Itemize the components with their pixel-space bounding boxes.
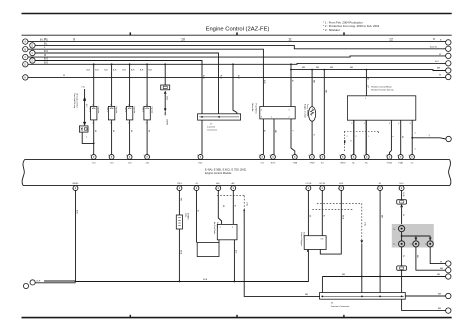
junction w7a E2 [323,69,325,71]
svg-text:Injector: Injector [97,107,100,114]
svg-text:W: W [402,214,404,216]
BR ground bus wire [322,276,445,278]
injector No.4 coil mark [145,107,148,110]
svg-text:VG: VG [261,163,264,165]
junction E1/BR bus [379,276,381,278]
svg-text:W: W [439,75,442,77]
ECM bottom edge [23,184,450,186]
ECM top pin M- [351,155,356,160]
svg-text:BR: BR [437,274,440,276]
svg-text:BR: BR [302,67,305,69]
svg-text:E2: E2 [321,163,324,165]
svg-text:12: 12 [389,37,393,41]
ECT lower wire THW [311,121,313,154]
injector No.4 box [144,106,150,120]
upper J/C dot 2 [218,116,220,118]
throttle shield drain mark [344,140,346,143]
connector circle R4 [446,61,451,66]
svg-text:R-Y: R-Y [85,104,87,108]
svg-text:(*3): (*3) [246,202,248,206]
svg-text:4: 4 [398,123,399,125]
grid tick b [236,32,238,35]
connector circle R9 [446,268,451,273]
throttle wire M- [353,120,355,154]
ECM bottom pin AF- [231,186,236,191]
wire gray c4 to right circle [430,247,445,264]
throttle wire VTA1 [400,120,402,154]
svg-text:2: 2 [339,155,340,157]
ECM bottom pin MREL [73,186,78,191]
svg-text:W: W [130,130,132,133]
O2 shield dash top [317,202,362,204]
grid rule [22,34,452,36]
svg-text:VC: VC [410,163,413,165]
svg-text:B-L(*2): B-L(*2) [430,47,437,49]
svg-text:No.2: No.2 [106,108,108,113]
bottom tick a [129,315,131,318]
upper J/C lower wire to ECM pin [201,120,203,154]
svg-text:W: W [402,255,404,257]
svg-text:Throttle Control Motor: Throttle Control Motor [371,86,393,89]
svg-text:2: 2 [144,155,145,157]
engine coolant temp sensor oval [309,107,316,122]
connector circle R3 [446,53,451,58]
wire w2 (B-L, to right circle c2) [35,45,446,48]
svg-text:B-R: B-R [131,70,135,72]
ECM top pin #20 [109,155,114,160]
E01 connector inner [399,201,403,203]
svg-text:PRG: PRG [177,183,182,185]
svg-text:2: 2 [363,155,364,157]
svg-text:H: H [24,76,26,80]
svg-text:1: 1 [368,136,369,138]
injector 1 lower wire [93,120,95,154]
throttle shield dash top [344,131,378,133]
svg-text:Oil Control Valve: Oil Control Valve [76,93,79,109]
svg-text:W: W [440,261,443,263]
wire w6 (to junction connector) [35,61,202,114]
injector No.1 box [91,106,97,120]
svg-text:J6: J6 [331,303,334,305]
connector circle L3 [23,54,28,59]
svg-text:1: 1 [110,104,111,106]
ECM bottom pin PRG [177,186,182,191]
grid tick a [129,32,131,35]
VSV EVAP inner [178,218,181,226]
connector circle R5 [446,68,451,73]
O2 shield drain arrowhead [360,240,363,243]
svg-text:M+: M+ [365,163,369,165]
wire w7 (B-O bus, to right circle c4) [28,62,446,65]
gray block junction dot [401,235,403,237]
svg-text:2: 2 [126,155,127,157]
svg-text:Temp. Sensor: Temp. Sensor [306,104,308,117]
svg-text:W-B: W-B [342,215,344,220]
frame top border [22,13,452,15]
svg-text:Heated Oxygen: Heated Oxygen [300,232,303,246]
svg-text:+B: +B [195,183,198,185]
junction w7a/throttle feed [366,69,368,71]
MREL lower wire [75,190,77,281]
air-fuel ratio sensor box [217,224,237,239]
svg-text:2: 2 [347,136,348,138]
svg-text:(EVAP): (EVAP) [187,213,190,220]
svg-text:2: 2 [110,122,111,124]
svg-text:VTA1: VTA1 [398,162,404,165]
svg-text:BR: BR [312,80,314,83]
svg-text:2: 2 [146,122,147,124]
ECM top pin GE01 [340,155,345,160]
bottom tick b [236,315,238,318]
ECM top pin VTA1 [398,155,403,160]
svg-text:No.3: No.3 [124,108,126,113]
svg-text:1: 1 [92,104,93,106]
svg-text:2: 2 [351,123,352,125]
connector circle R7 (Y) [446,136,451,141]
svg-text:MREL: MREL [72,183,79,185]
junction MAF drop/w7a [290,69,292,71]
svg-text:No.1: No.1 [88,108,90,113]
svg-text:BR: BR [305,294,308,296]
ECM bottom pin AF+ [216,186,221,191]
svg-text:BR: BR [325,90,327,93]
AF shield drain wire to lower J/C [244,210,319,296]
svg-text:Camshaft Timing: Camshaft Timing [73,93,76,108]
svg-text:4: 4 [415,149,416,151]
svg-text:1: 1 [398,188,399,190]
svg-text:BR: BR [316,67,319,69]
connector circle bottom-left 2 [30,280,35,285]
ECM bottom pin HT1B [320,186,325,191]
PRG wire lower [178,229,180,282]
svg-text:B-O: B-O [44,62,48,64]
OCV feed arrowhead down [83,122,86,126]
svg-text:BR: BR [350,67,353,69]
svg-text:* 3 : Shielded: * 3 : Shielded [323,28,340,32]
svg-text:BR: BR [438,308,441,310]
ECM top pin #30 [127,155,132,160]
junction w7/MAF drop [290,63,292,65]
throttle shield dash drain to GE01 [344,132,346,152]
injector 2 lower wire [111,120,113,154]
svg-text:B-R: B-R [113,70,117,72]
connector circle L4 [23,62,28,67]
svg-text:B-Y: B-Y [235,250,237,254]
frame bottom border [22,317,452,319]
OCV feed arrow shaft [84,89,86,123]
svg-text:Mass Air: Mass Air [251,104,254,112]
svg-text:B-R: B-R [149,70,153,72]
svg-text:4: 4 [415,133,416,135]
injector No.2 box [108,106,114,120]
connector circle L1 [23,39,28,44]
wire w7 drop to junction connector [233,64,237,114]
ECM top pin E2 [320,155,325,160]
wire w1 (B, to right circle c1) [28,41,446,43]
ECM top pin VC [410,155,415,160]
throttle wire M+ [365,120,367,154]
svg-text:B-O: B-O [44,51,48,53]
ECM bottom pin E03 [339,186,344,191]
connector circle R12 [446,308,451,313]
svg-text:E03: E03 [339,183,344,185]
svg-text:1: 1 [338,188,339,190]
upper junction connector box [198,114,241,120]
gray block junction circle c2 [399,241,405,247]
svg-text:2: 2 [308,155,309,157]
HT1B wire [321,190,323,235]
svg-text:1: 1 [193,188,194,190]
svg-text:BR: BR [416,255,418,258]
svg-text:1: 1 [72,188,73,190]
svg-text:B: B [367,78,369,80]
junction VC/Y branch [411,137,413,139]
svg-text:W: W [63,75,66,77]
OCV feed arrowhead up [83,96,86,101]
svg-text:W: W [147,130,149,133]
svg-text:GE01: GE01 [340,163,346,165]
ECM bottom pin +B [194,186,199,191]
O2 shield dash drop [361,203,363,240]
junction MREL/ground bus [75,281,77,283]
gray ground-point block [392,224,434,248]
svg-text:1: 1 [230,188,231,190]
AF bottom-right wire to ground bus [233,240,235,282]
lower J/C inner line [321,295,404,297]
MAF lower wire THA [291,119,295,154]
svg-text:2: 2 [386,155,387,157]
ECM bottom pin OX1B [306,186,311,191]
throttle shield dash right leg [377,132,379,135]
injector No.3 box [126,106,132,120]
svg-text:Engine Control Module: Engine Control Module [205,171,232,175]
svg-text:No.4: No.4 [142,108,144,113]
gray block junction circle c4 [427,241,433,247]
ECM right brace edge [449,160,451,186]
O2 shield drain wire [361,243,363,292]
connector circle R6 [446,74,451,79]
svg-text:B: B [323,215,325,217]
throttle wire VC [411,120,413,154]
junction w7 VSV-arrow [164,63,166,65]
AF+ wire [218,190,221,224]
gray block wire to circle 2 [401,236,403,241]
svg-text:2: 2 [92,122,93,124]
svg-text:E1: E1 [379,183,382,185]
gray block arrowhead 2 [429,238,432,241]
svg-text:8: 8 [433,37,435,41]
connector circle L7 [30,58,35,63]
heated oxygen sensor box [304,236,326,250]
svg-text:E: E [32,44,34,48]
bottom tick c [343,315,345,318]
svg-text:#20: #20 [110,163,114,165]
upper J/C dot 1 [201,116,203,118]
svg-text:VSV: VSV [184,213,186,218]
throttle wire Y branch [412,138,446,139]
ECM top pin #40 [145,155,150,160]
O2 shield dash top2 [312,209,352,211]
gray block branch 1 [415,236,417,238]
connector circle R11 [446,293,451,298]
svg-text:Junction: Junction [207,126,216,129]
svg-text:B-R: B-R [140,70,144,72]
svg-text:10: 10 [181,37,185,41]
svg-text:PR: PR [180,198,182,201]
svg-text:2: 2 [397,155,398,157]
svg-text:E 4(A), E 5(B), E 6(C), E 7(D): E 4(A), E 5(B), E 6(C), E 7(D) (2AZ) [205,167,246,171]
svg-text:W: W [112,130,114,133]
wire w4 (to junction connector) [35,53,218,114]
svg-text:THW: THW [309,163,315,165]
svg-text:B-R: B-R [122,70,126,72]
svg-text:E01: E01 [400,183,405,185]
upper J/C inner line [199,116,239,118]
svg-text:W: W [94,130,96,133]
svg-text:BR: BR [440,268,443,270]
svg-text:Sensor: Sensor [303,232,305,239]
wire w7a BR branch (to right circle c5) [291,69,446,72]
junction w7 JC drop [232,63,234,65]
throttle control motor / throttle position sensor box [347,96,415,120]
svg-text:A: A [24,40,26,44]
svg-text:2: 2 [355,136,356,138]
svg-text:B: B [234,205,236,207]
AF- wire [232,190,234,224]
injector 4 lower wire [146,120,148,154]
svg-text:B-O: B-O [237,75,239,79]
svg-text:#40: #40 [145,163,149,165]
lower J/C dot x380.1 [379,296,381,298]
svg-text:M-: M- [352,163,355,165]
svg-text:B: B [291,80,293,82]
svg-text:B: B [197,210,199,212]
ECM bottom pin E01 [399,186,404,191]
AF bottom-left stub [218,240,220,243]
svg-text:Sensor: Sensor [216,222,218,229]
svg-text:3: 3 [389,123,390,125]
wire gray c2 down to IG box [401,247,403,266]
injector 4 feed wire [146,64,148,106]
O2 bottom-left stub [307,250,309,253]
grid tick c [343,32,345,35]
wire IG box to lower J/C [401,270,403,292]
svg-text:1: 1 [364,123,365,125]
svg-text:2: 2 [259,155,260,157]
svg-text:B-O: B-O [202,75,204,79]
svg-text:E01: E01 [199,163,204,165]
svg-text:B-L (*2): B-L (*2) [40,40,48,42]
svg-text:B: B [440,39,442,41]
lower junction connector box [320,293,406,300]
connector circle L8 [23,75,28,80]
junction w7a ECT [311,69,313,71]
+B wire to AF heater box [196,190,198,242]
svg-text:1: 1 [305,188,306,190]
twisted pair wire upper [44,280,76,282]
VSV connector box [161,85,170,90]
svg-text:1: 1 [319,188,320,190]
svg-text:Y: Y [429,136,431,138]
svg-text:Air-Fuel Ratio: Air-Fuel Ratio [213,222,216,235]
svg-text:2: 2 [108,155,109,157]
gray block branch 2 [429,236,431,238]
svg-text:Connector: Connector [207,129,217,132]
throttle box top feed wire [365,70,367,96]
AF heater relay box [197,243,219,257]
AF shield dash right [243,196,245,224]
ECM top pin THA [292,155,297,160]
wire w3 (to MAF left pin) [28,49,263,106]
ECM top pin VG [260,155,265,160]
ECT zigzag [311,109,314,116]
svg-text:THA: THA [293,162,298,165]
ECM top pin EVG [271,155,276,160]
arrowhead up to VSV box [164,91,167,94]
svg-text:1: 1 [146,104,147,106]
ECM top pin THW [310,155,315,160]
svg-text:2: 2 [291,155,292,157]
connector circle R10 (BR bus) [446,274,451,279]
junction AF/ground bus [234,281,236,283]
svg-text:5: 5 [410,123,411,125]
arrowhead up to E01 box [400,204,403,207]
svg-text:HT1B: HT1B [320,183,326,185]
injector No.3 coil mark [128,107,131,110]
lower J/C bottom exit wire [402,299,446,310]
svg-text:2: 2 [408,155,409,157]
svg-text:11: 11 [288,37,292,41]
svg-text:(*2): (*2) [82,87,86,89]
svg-text:Engine Control (2AZ-FE): Engine Control (2AZ-FE) [206,27,270,33]
injector 2 feed wire [111,64,113,106]
IG connector inner [399,267,403,269]
connector circle L2 [23,47,28,52]
gray block horizontal wire [402,235,431,237]
gray block junction circle c3 [413,241,419,247]
svg-text:B-R: B-R [166,97,168,101]
ECM top pin M+ [364,155,369,160]
svg-text:2: 2 [350,155,351,157]
VSV connector inner [163,86,167,88]
svg-text:B-R: B-R [95,70,99,72]
svg-text:BR: BR [330,67,333,69]
ECM bottom pin E1 [378,186,383,191]
wire gray c3 to right circle [416,247,446,270]
lower J/C dot x362.0 [361,296,363,298]
svg-text:1: 1 [128,104,129,106]
OCV lower wire to injector1 column [82,132,94,143]
connector circle L5 [30,43,35,48]
VSV arrowhead down [164,108,167,111]
svg-text:2: 2 [128,122,129,124]
svg-text:W: W [309,215,311,218]
svg-text:1: 1 [176,188,177,190]
svg-text:W-B: W-B [203,279,208,281]
svg-text:J7: J7 [210,124,213,126]
gray block junction circle 1 [399,226,405,232]
svg-text:2: 2 [269,155,270,157]
svg-text:Junction Connector: Junction Connector [331,305,350,308]
junction OCV/injector1 wire [93,143,95,145]
svg-text:W: W [222,205,224,208]
svg-text:B-O: B-O [44,59,48,61]
gray block arrowhead 1 [415,238,418,241]
svg-text:2: 2 [319,155,320,157]
injector 3 feed wire [129,64,131,106]
E01 wire upper [401,190,403,199]
svg-text:Injector: Injector [150,107,153,114]
